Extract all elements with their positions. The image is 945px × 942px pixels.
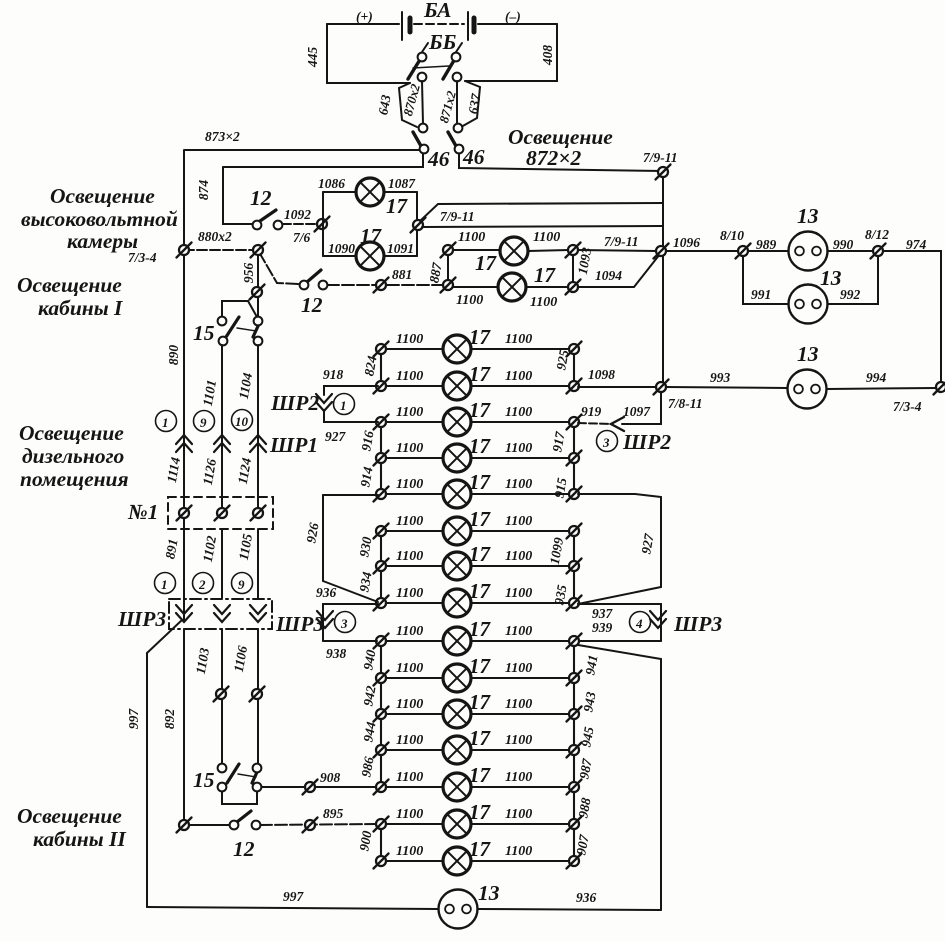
battery cell right short plate xyxy=(472,18,477,32)
svg-text:7/6: 7/6 xyxy=(293,230,311,245)
terminal row 10 right xyxy=(567,671,582,686)
terminal 892 end xyxy=(177,818,192,833)
svg-text:937: 937 xyxy=(592,606,614,621)
svg-text:ШР1: ШР1 xyxy=(269,433,318,457)
svg-text:17: 17 xyxy=(469,579,492,603)
wire 870x2 xyxy=(422,81,423,124)
svg-text:Освещение: Освещение xyxy=(17,273,122,297)
right bus 941-907 segment xyxy=(573,641,575,861)
wire row5 left extension xyxy=(323,494,378,496)
outer bus 926 xyxy=(322,495,324,581)
wire battery minus xyxy=(478,23,557,25)
wire row 2 right 1100 xyxy=(471,385,569,387)
svg-text:ШР2: ШР2 xyxy=(270,391,319,415)
svg-text:939: 939 xyxy=(592,620,613,635)
wire row 2 left 1100 xyxy=(386,385,443,387)
svg-text:890: 890 xyxy=(166,345,181,366)
wire row 13 right 1100 xyxy=(471,786,569,788)
svg-text:17: 17 xyxy=(469,398,492,422)
contact sw15-I bot-right xyxy=(254,337,263,346)
svg-text:2: 2 xyxy=(198,577,206,592)
terminal 1098 junction xyxy=(654,380,669,395)
svg-text:17: 17 xyxy=(469,507,492,531)
contact 46 lower-right xyxy=(455,145,464,154)
svg-text:1: 1 xyxy=(340,398,347,413)
terminal row 14 right xyxy=(567,817,582,832)
svg-text:15: 15 xyxy=(193,768,215,792)
svg-text:873×2: 873×2 xyxy=(205,129,240,144)
svg-text:1100: 1100 xyxy=(505,661,532,676)
svg-text:13: 13 xyxy=(820,266,842,290)
lower outer bus right xyxy=(660,659,662,910)
svg-text:13: 13 xyxy=(478,881,500,905)
svg-text:990: 990 xyxy=(833,237,854,252)
svg-text:Освещение: Освещение xyxy=(19,421,124,445)
right bus 925 segment xyxy=(573,350,575,386)
svg-text:1100: 1100 xyxy=(396,770,423,785)
contact sw12 cabI left xyxy=(300,281,309,290)
terminal row 7 left xyxy=(374,559,389,574)
wire right riser xyxy=(662,172,664,387)
svg-text:1098: 1098 xyxy=(588,367,615,382)
wire row 4 left 1100 xyxy=(386,457,443,459)
svg-text:1100: 1100 xyxy=(396,441,423,456)
lamp row 15 xyxy=(443,847,471,875)
svg-text:17: 17 xyxy=(469,325,492,349)
wire 990 xyxy=(828,250,873,252)
connector ShR3 chevron ladder-left xyxy=(317,611,333,628)
wire row 14 right 1100 xyxy=(471,823,569,825)
terminal 880x2 junction xyxy=(251,243,266,258)
terminal row 11 right xyxy=(567,707,582,722)
svg-text:1100: 1100 xyxy=(505,549,532,564)
wire 919 xyxy=(578,423,612,424)
svg-text:7/3-4: 7/3-4 xyxy=(893,399,922,414)
wire 1096 feed xyxy=(577,250,657,251)
wire 997 branch diagonal xyxy=(147,620,182,653)
wire lamp row lower right xyxy=(526,286,569,288)
svg-text:993: 993 xyxy=(710,370,731,385)
svg-text:892: 892 xyxy=(162,709,177,730)
svg-text:874: 874 xyxy=(196,180,211,201)
svg-text:13: 13 xyxy=(797,342,819,366)
wire row 4 right 1100 xyxy=(471,457,569,459)
lamp cab I lower xyxy=(498,273,526,301)
svg-text:12: 12 xyxy=(301,293,323,317)
wire row 5 right 1100 xyxy=(471,493,569,495)
switch 15 cab I feed bend xyxy=(222,301,257,317)
contact sw15-I bot-left xyxy=(219,337,228,346)
contact sw12 cabI right xyxy=(319,281,328,290)
connector ShR1 chevron wire1 xyxy=(176,435,192,452)
svg-text:1100: 1100 xyxy=(396,549,423,564)
svg-text:1100: 1100 xyxy=(505,770,532,785)
svg-text:17: 17 xyxy=(469,800,492,824)
wire diagonal row9 to lower outer bus xyxy=(578,645,661,659)
terminal 895 xyxy=(303,818,318,833)
wire row 15 left 1100 xyxy=(386,860,443,862)
wire 1106 xyxy=(257,629,259,767)
contact sw15-I top-left xyxy=(218,317,227,326)
terminal 1106 xyxy=(250,687,265,702)
terminal row 2 left xyxy=(374,379,389,394)
svg-text:3: 3 xyxy=(340,616,348,631)
svg-text:1100: 1100 xyxy=(396,733,423,748)
contact sw15-II top-right xyxy=(253,764,262,773)
left bus 900 segment xyxy=(380,824,382,861)
contact BB bottom-right xyxy=(453,73,462,82)
svg-text:1100: 1100 xyxy=(505,477,532,492)
wire 637 loop xyxy=(461,81,480,127)
lamp row 2 xyxy=(443,372,471,400)
contact BB top-left xyxy=(418,53,427,62)
lamp row 11 xyxy=(443,700,471,728)
svg-text:17: 17 xyxy=(469,362,492,386)
svg-text:974: 974 xyxy=(906,237,927,252)
svg-text:7/9-11: 7/9-11 xyxy=(643,150,678,165)
svg-text:17: 17 xyxy=(469,617,492,641)
wire row 12 right 1100 xyxy=(471,749,569,751)
svg-text:кабины II: кабины II xyxy=(33,827,126,851)
terminal row 12 left xyxy=(374,743,389,758)
svg-text:7/9-11: 7/9-11 xyxy=(440,209,475,224)
left bus 824 segment xyxy=(380,349,382,386)
switch 12 blade xyxy=(260,210,276,221)
lamp row 8 xyxy=(443,589,471,617)
svg-text:992: 992 xyxy=(840,287,861,302)
left bus 940-986 segment xyxy=(380,641,382,787)
terminal row 8 right xyxy=(567,596,582,611)
connector ShR3 chevron wire3 xyxy=(250,605,266,622)
svg-text:1: 1 xyxy=(161,577,168,592)
switch 12 cab I blade xyxy=(307,270,321,282)
svg-text:17: 17 xyxy=(469,726,492,750)
battery cell right long plate xyxy=(467,12,469,40)
terminal row 3 right xyxy=(567,415,582,430)
lamp row 3 xyxy=(443,408,471,436)
svg-text:17: 17 xyxy=(469,434,492,458)
svg-text:1100: 1100 xyxy=(396,624,423,639)
arrowhead 1097 xyxy=(611,417,624,431)
wire row 11 right 1100 xyxy=(471,713,569,715)
terminal row 10 left xyxy=(374,671,389,686)
svg-text:9: 9 xyxy=(200,415,207,430)
svg-text:918: 918 xyxy=(323,367,344,382)
svg-text:1100: 1100 xyxy=(533,230,560,245)
socket 13 D xyxy=(439,890,478,929)
svg-text:(+): (+) xyxy=(356,9,373,24)
svg-text:46: 46 xyxy=(462,145,485,169)
wire to lamp 1090 xyxy=(323,255,356,257)
svg-text:дизельного: дизельного xyxy=(22,444,125,468)
contact sw15-II bot-right xyxy=(253,783,262,792)
wire row5 right extension xyxy=(578,494,661,497)
wire lamp to 1091 xyxy=(384,255,417,257)
wire drop to chamber block xyxy=(223,154,423,167)
connector ShR1 chevron wire2 xyxy=(214,435,230,452)
wire 1103 xyxy=(221,629,223,767)
pin circle 10 upper xyxy=(232,410,253,431)
wire 1096 xyxy=(665,250,738,252)
svg-text:1100: 1100 xyxy=(396,514,423,529)
wire battery middle xyxy=(414,23,464,25)
terminal row 13 right xyxy=(567,780,582,795)
wire 887 bus xyxy=(447,250,449,285)
switch 15 cab I link bar xyxy=(237,328,256,331)
wire 938 xyxy=(323,640,377,642)
svg-text:БА: БА xyxy=(423,0,451,22)
svg-text:919: 919 xyxy=(581,404,602,419)
svg-text:Освещение: Освещение xyxy=(17,804,122,828)
lamp row 6 xyxy=(443,517,471,545)
wire 408 xyxy=(465,24,557,81)
svg-text:1100: 1100 xyxy=(505,441,532,456)
terminal N1 wire3 xyxy=(251,506,266,521)
wire lamp to 1087 xyxy=(384,191,417,193)
wire row 10 left 1100 xyxy=(386,677,443,679)
knife switch BB stub left xyxy=(422,43,428,52)
terminal row 11 left xyxy=(374,707,389,722)
svg-text:936: 936 xyxy=(576,890,597,905)
wire 927 xyxy=(324,410,378,422)
svg-text:3: 3 xyxy=(602,435,610,450)
wire row 6 right 1100 xyxy=(471,530,569,532)
terminal row 13 left xyxy=(374,780,389,795)
wire 992 xyxy=(828,256,878,304)
contact BB top-right xyxy=(452,53,461,62)
svg-text:17: 17 xyxy=(469,470,492,494)
svg-text:881: 881 xyxy=(392,267,412,282)
svg-text:1086: 1086 xyxy=(318,176,345,191)
contact 46 upper-left xyxy=(419,124,428,133)
wire 918 xyxy=(324,386,378,395)
svg-text:4: 4 xyxy=(635,616,643,631)
svg-text:7/8-11: 7/8-11 xyxy=(668,396,703,411)
wire 892 xyxy=(183,629,185,825)
terminal row 15 left xyxy=(374,854,389,869)
wire 936 diagonal xyxy=(323,581,378,602)
contact sw15-II top-left xyxy=(218,764,227,773)
svg-text:№1: №1 xyxy=(127,500,158,524)
terminal 887 top xyxy=(441,243,456,258)
svg-text:1100: 1100 xyxy=(505,405,532,420)
lamp chamber upper xyxy=(356,178,384,206)
svg-text:8/12: 8/12 xyxy=(865,227,889,242)
terminal row 4 right xyxy=(567,451,582,466)
svg-text:17: 17 xyxy=(469,690,492,714)
svg-text:1094: 1094 xyxy=(595,268,622,283)
chamber lamps right bus xyxy=(416,192,418,256)
right bus 1099/935 segment xyxy=(573,531,575,605)
battery cell left long plate xyxy=(401,12,403,40)
svg-text:помещения: помещения xyxy=(20,467,129,491)
lamp chamber lower xyxy=(356,242,384,270)
svg-text:1100: 1100 xyxy=(396,586,423,601)
svg-text:1100: 1100 xyxy=(396,332,423,347)
terminal 1093 bottom xyxy=(566,280,581,295)
contact sw12 chamber left xyxy=(253,221,262,230)
wire row 12 left 1100 xyxy=(386,749,443,751)
wire 939 right xyxy=(579,640,661,642)
wire 989 xyxy=(748,250,788,252)
terminal row 2 right xyxy=(567,379,582,394)
svg-text:1100: 1100 xyxy=(505,514,532,529)
wire 881 xyxy=(327,284,443,286)
terminal 7/3-4 xyxy=(177,243,192,258)
wire row 7 right 1100 xyxy=(471,565,569,567)
terminal row 9 left xyxy=(374,634,389,649)
svg-text:1100: 1100 xyxy=(505,332,532,347)
wire row 10 right 1100 xyxy=(471,677,569,679)
connector ShR3 chevron wire1 xyxy=(176,605,192,622)
connector ShR3 box xyxy=(169,599,272,629)
svg-text:17: 17 xyxy=(475,251,498,275)
svg-text:17: 17 xyxy=(469,542,492,566)
svg-text:1092: 1092 xyxy=(284,207,311,222)
switch 15 cab I right blade xyxy=(253,324,259,337)
terminal N1 wire1 xyxy=(177,506,192,521)
wire row 1 left 1100 xyxy=(386,348,443,350)
terminal row 5 right xyxy=(567,487,582,502)
svg-text:880х2: 880х2 xyxy=(198,229,232,244)
lamp row 9 xyxy=(443,627,471,655)
wire lamp row lower left xyxy=(452,286,498,288)
wire 880x2 xyxy=(184,249,254,251)
wire 908 xyxy=(262,786,376,788)
svg-text:Освещение: Освещение xyxy=(50,184,155,208)
terminal chamber output xyxy=(411,218,426,233)
svg-text:7/9-11: 7/9-11 xyxy=(604,234,639,249)
terminal row 5 left xyxy=(374,487,389,502)
terminal 887 bottom xyxy=(441,278,456,293)
wire 1093 bus xyxy=(572,250,574,287)
svg-text:1100: 1100 xyxy=(505,844,532,859)
svg-text:936: 936 xyxy=(316,585,337,600)
wire 997 left rail xyxy=(146,653,148,907)
connector ShR3 chevron ladder-right xyxy=(650,611,666,628)
contact sw15-I top-right xyxy=(254,317,263,326)
contact BB bottom-left xyxy=(418,73,427,82)
svg-text:927: 927 xyxy=(325,429,347,444)
terminal row 12 right xyxy=(567,743,582,758)
pin circle 3 ShR3 ladder xyxy=(335,612,356,633)
socket 13 B xyxy=(789,285,828,324)
svg-text:997: 997 xyxy=(283,889,305,904)
svg-text:994: 994 xyxy=(866,370,887,385)
wire row 6 left 1100 xyxy=(386,530,443,532)
svg-text:1097: 1097 xyxy=(623,404,651,419)
left bus 916/914 segment xyxy=(380,422,382,494)
wire 895 xyxy=(260,824,376,825)
switch 15 cab II bottom bridge xyxy=(222,791,257,804)
lamp row 13 xyxy=(443,773,471,801)
knife switch BB blade left xyxy=(408,58,421,79)
svg-text:991: 991 xyxy=(751,287,771,302)
svg-text:1100: 1100 xyxy=(396,405,423,420)
wire row 14 left 1100 xyxy=(386,823,443,825)
svg-text:1100: 1100 xyxy=(505,733,532,748)
terminal 7/3-4 right xyxy=(934,380,945,395)
wire row 1 right 1100 xyxy=(471,348,569,350)
svg-text:1100: 1100 xyxy=(396,697,423,712)
svg-text:ШР2: ШР2 xyxy=(622,430,671,454)
svg-text:989: 989 xyxy=(756,237,777,252)
svg-text:ШР3: ШР3 xyxy=(117,607,166,631)
wire 1104 xyxy=(257,345,259,513)
wire 1094 xyxy=(577,254,660,287)
switch 46 blade right xyxy=(448,132,456,146)
wire 1092 xyxy=(282,223,317,225)
wire lamp row upper left xyxy=(452,249,500,251)
svg-text:9: 9 xyxy=(238,577,245,592)
terminal row 6 right xyxy=(567,524,582,539)
switch 15 cab II link bar xyxy=(238,774,256,777)
pin circle 3 ShR2 right xyxy=(597,431,618,452)
contact sw12-II right xyxy=(252,821,261,830)
wire diagonal to row8 right xyxy=(578,587,661,604)
left bus 930/934 segment xyxy=(380,531,382,603)
svg-text:956: 956 xyxy=(241,263,256,284)
terminal row 1 left xyxy=(374,342,389,357)
svg-text:кабины I: кабины I xyxy=(38,296,123,320)
lamp row 7 xyxy=(443,552,471,580)
wire row8 to ShR3 pin3 xyxy=(323,604,378,641)
svg-text:12: 12 xyxy=(250,186,272,210)
wire 997 bottom xyxy=(147,907,438,909)
wire lamp row upper right xyxy=(528,250,569,251)
wire 991 xyxy=(743,256,788,304)
switch 15 cab II right blade xyxy=(252,770,258,783)
terminal row 8 left xyxy=(374,596,389,611)
wire row8 right to ShR3 pin4 xyxy=(578,604,661,641)
lamp row 14 xyxy=(443,810,471,838)
pin circle 1 lower xyxy=(155,573,176,594)
wire 956 drop xyxy=(257,252,259,316)
wire row 9 left 1100 xyxy=(386,640,443,642)
svg-text:15: 15 xyxy=(193,321,215,345)
svg-text:8/10: 8/10 xyxy=(720,228,744,243)
switch 46 blade left xyxy=(413,132,421,146)
svg-text:высоковольтной: высоковольтной xyxy=(21,207,178,231)
svg-text:1100: 1100 xyxy=(456,293,483,308)
lamp row 1 xyxy=(443,335,471,363)
wire 872x2 xyxy=(459,154,663,171)
terminal row 3 left xyxy=(374,415,389,430)
svg-text:1087: 1087 xyxy=(388,176,416,191)
switch 15 cab II blade xyxy=(227,764,239,783)
wire 643 loop xyxy=(399,83,417,127)
terminal 956 xyxy=(250,285,265,300)
svg-text:46: 46 xyxy=(427,147,450,171)
svg-text:1100: 1100 xyxy=(458,230,485,245)
knife switch BB stub right xyxy=(456,43,462,52)
wire to lamp 1086 xyxy=(323,191,356,193)
svg-text:1100: 1100 xyxy=(505,624,532,639)
svg-text:1: 1 xyxy=(162,415,169,430)
terminal 1096 junction xyxy=(654,244,669,259)
socket 13 A xyxy=(789,232,828,271)
svg-text:10: 10 xyxy=(235,414,249,429)
wire row 7 left 1100 xyxy=(386,565,443,567)
svg-text:872×2: 872×2 xyxy=(526,146,582,170)
svg-text:17: 17 xyxy=(534,263,557,287)
svg-text:17: 17 xyxy=(469,763,492,787)
contact sw12-II left xyxy=(230,821,239,830)
wire 1105 xyxy=(257,529,259,598)
outer bus 927 right xyxy=(660,497,662,587)
svg-text:12: 12 xyxy=(233,837,255,861)
terminal 908 xyxy=(303,780,318,795)
